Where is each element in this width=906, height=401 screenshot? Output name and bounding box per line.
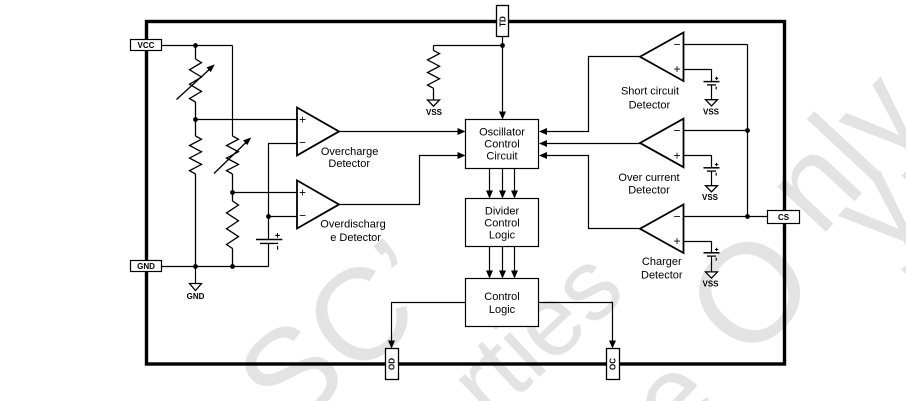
battery B2 (over current ref)	[704, 163, 720, 176]
svg-text:Short circuit: Short circuit	[621, 86, 679, 98]
op-amp U5 Charger Detector	[640, 205, 684, 282]
svg-text:VCC: VCC	[138, 41, 155, 50]
pin OC	[607, 349, 620, 380]
block Divider Control Logic	[466, 199, 539, 247]
node VCC junction	[193, 43, 198, 48]
wire node B to overdischarge + input	[233, 192, 298, 194]
block Control Logic	[466, 279, 539, 327]
svg-text:Charger: Charger	[642, 256, 682, 268]
wire control logic to OD pin	[388, 303, 466, 349]
wire over current - input	[684, 130, 748, 132]
wire control logic to OC pin	[539, 303, 617, 349]
svg-text:+: +	[299, 112, 306, 126]
wire overdischarge output to oscillator	[339, 152, 466, 205]
svg-text:−: −	[673, 37, 680, 51]
svg-text:Overdischarg: Overdischarg	[320, 219, 385, 231]
svg-text:+: +	[673, 234, 680, 248]
wire over current + input	[684, 156, 712, 168]
svg-text:OC: OC	[609, 358, 618, 370]
ground VSS (TD pulldown)	[426, 100, 443, 117]
pin GND	[131, 261, 162, 272]
wire charger - input to CS	[684, 216, 768, 218]
wire TD node to pulldown resistor	[434, 45, 503, 47]
svg-text:Detector: Detector	[641, 270, 683, 282]
pin OD	[386, 349, 399, 380]
resistor R4	[227, 193, 239, 267]
svg-text:VSS: VSS	[702, 193, 719, 202]
wire short circuit + input	[684, 70, 712, 82]
node CS-overcurrent junction	[745, 128, 750, 133]
svg-text:VSS: VSS	[426, 108, 443, 117]
node B (divider tap 2)	[230, 190, 235, 195]
wire chain B top vertical	[232, 46, 234, 137]
svg-text:Control: Control	[484, 217, 519, 229]
wire oscillator to divider arrows	[486, 169, 518, 199]
svg-text:CS: CS	[778, 213, 790, 222]
op-amp U1 Overcharge Detector	[297, 108, 378, 171]
ground GND symbol	[187, 267, 205, 301]
block Oscillator Control Circuit	[466, 120, 539, 169]
svg-text:Overcharge: Overcharge	[321, 146, 378, 158]
svg-text:−: −	[673, 124, 680, 138]
wire charger + input	[684, 242, 712, 253]
svg-text:TD: TD	[498, 16, 507, 27]
svg-text:Over current: Over current	[618, 172, 679, 184]
svg-text:Control: Control	[484, 291, 519, 303]
svg-text:−: −	[673, 209, 680, 223]
wire short circuit output to oscillator	[539, 57, 640, 136]
op-amp U3 Short circuit Detector	[621, 33, 684, 112]
svg-text:Control: Control	[484, 138, 519, 150]
svg-text:GND: GND	[187, 292, 205, 301]
node A (divider tap 1)	[193, 117, 198, 122]
pin VCC	[131, 40, 162, 51]
wire TD pin to node	[502, 37, 504, 46]
svg-text:VSS: VSS	[703, 107, 720, 116]
ground VSS (charger)	[702, 256, 719, 288]
svg-text:−: −	[299, 136, 306, 150]
svg-text:Divider: Divider	[485, 205, 520, 217]
svg-text:Logic: Logic	[489, 304, 516, 316]
svg-text:Detector: Detector	[328, 158, 370, 170]
VR3 arrow	[214, 137, 251, 173]
svg-text:GND: GND	[137, 262, 155, 271]
pin TD	[497, 6, 509, 37]
wire charger output to oscillator	[539, 152, 640, 229]
pin CS	[768, 211, 800, 224]
ground VSS (short circuit)	[703, 85, 720, 117]
node GND-R4 junction	[230, 264, 235, 269]
battery VREF (reference)	[256, 233, 282, 250]
svg-text:Logic: Logic	[489, 229, 516, 241]
node TD junction	[500, 43, 505, 48]
svg-text:+: +	[673, 148, 680, 162]
wire VCC to node	[162, 45, 233, 47]
node CS-charger junction	[745, 214, 750, 219]
IC outer border	[147, 22, 785, 365]
VR1 arrow	[177, 64, 215, 99]
resistor VR3 (variable)	[227, 136, 239, 193]
svg-text:+: +	[673, 62, 680, 76]
svg-text:Detector: Detector	[629, 100, 671, 112]
svg-text:Circuit: Circuit	[486, 150, 517, 162]
wire TD node to oscillator	[499, 46, 506, 120]
svg-text:+: +	[299, 185, 306, 199]
wire overcharge output to oscillator	[339, 128, 466, 135]
svg-text:−: −	[299, 209, 306, 223]
op-amp U4 Over current Detector	[618, 119, 683, 197]
ground VSS (over current)	[702, 171, 719, 202]
resistor R2	[190, 120, 202, 267]
wire node A to overcharge + input	[196, 119, 298, 121]
svg-text:Detector: Detector	[628, 184, 670, 196]
wire reference line to comparators	[269, 144, 298, 267]
resistor R5 (TD pulldown)	[428, 46, 440, 101]
wire divider to control arrows	[486, 247, 518, 279]
battery B3 (charger ref)	[704, 248, 720, 261]
svg-text:OD: OD	[388, 358, 397, 370]
battery B1 (short circuit ref)	[704, 77, 720, 90]
wire over current output to oscillator	[539, 140, 640, 147]
node GND-R2 junction	[193, 264, 198, 269]
resistor VR1 (variable)	[190, 46, 202, 120]
wire CS bus vertical	[747, 45, 749, 217]
op-amp U2 Overdischarge Detector	[297, 180, 386, 243]
watermark	[210, 44, 906, 401]
wire short circuit - input	[684, 44, 748, 46]
svg-text:VSS: VSS	[702, 280, 719, 289]
wire GND rail	[162, 266, 269, 268]
svg-text:e Detector: e Detector	[330, 232, 381, 244]
node reference junction	[266, 214, 271, 219]
svg-text:Oscillator: Oscillator	[479, 126, 525, 138]
